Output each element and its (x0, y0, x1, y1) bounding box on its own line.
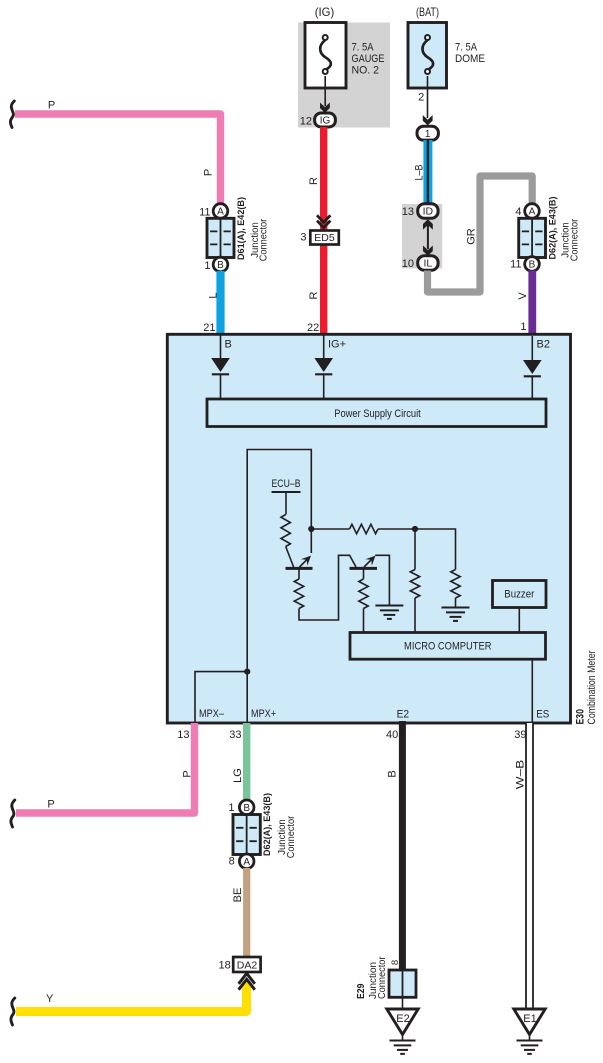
svg-text:E1: E1 (523, 1013, 536, 1025)
svg-text:12: 12 (300, 116, 312, 128)
svg-text:ED5: ED5 (314, 232, 335, 244)
wire Q2 emitter to ground (375, 555, 389, 605)
combination meter E30 box (167, 334, 570, 723)
wire break squiggle yellow (11, 998, 15, 1025)
svg-text:1: 1 (425, 129, 431, 140)
buzzer box (493, 581, 547, 608)
svg-text:11: 11 (199, 207, 210, 219)
pin label MPX- (199, 708, 225, 720)
svg-text:Connector: Connector (377, 956, 388, 999)
pin label B (225, 339, 232, 351)
svg-text:Connector: Connector (259, 218, 270, 261)
label R upper (308, 177, 320, 185)
label Combination Meter (586, 650, 598, 724)
svg-text:(IG): (IG) (315, 5, 335, 19)
svg-text:7. 5A: 7. 5A (455, 42, 478, 54)
svg-text:4: 4 (515, 206, 521, 218)
svg-text:21: 21 (203, 322, 215, 334)
diode 3 with leads (523, 336, 542, 400)
pin 40 bottom (386, 729, 398, 741)
gray service box around IG fuse (298, 23, 390, 128)
svg-text:13: 13 (402, 206, 414, 218)
wire ES internal (531, 659, 533, 721)
svg-text:R: R (308, 177, 320, 185)
svg-text:B: B (387, 770, 399, 777)
wire V (purple) (528, 271, 536, 334)
svg-text:18: 18 (219, 960, 231, 972)
power supply circuit box (207, 399, 546, 427)
svg-text:Buzzer: Buzzer (504, 589, 534, 601)
svg-text:MICRO COMPUTER: MICRO COMPUTER (404, 641, 492, 653)
svg-text:D61(A), E42(B): D61(A), E42(B) (235, 197, 246, 260)
wire MPX+ internal (247, 450, 311, 722)
diode 1 with leads (211, 334, 230, 400)
pin 22 (307, 322, 319, 334)
svg-text:ID: ID (423, 206, 434, 218)
svg-text:1: 1 (228, 802, 234, 814)
label B wire (387, 770, 399, 777)
wire GR (gray) (428, 176, 533, 292)
svg-text:22: 22 (307, 322, 319, 334)
pin label B2 (537, 339, 550, 351)
svg-text:1: 1 (204, 260, 210, 272)
label (BAT) (416, 5, 439, 19)
svg-text:D62(A), E43(B): D62(A), E43(B) (261, 793, 272, 856)
svg-text:IL: IL (424, 258, 433, 270)
svg-text:W–B: W–B (515, 760, 527, 790)
svg-text:L–B: L–B (414, 165, 426, 181)
svg-text:E29: E29 (356, 983, 367, 999)
pin 10 (402, 258, 414, 270)
pin label E2 (397, 709, 410, 721)
ground internal 1 (375, 606, 403, 619)
resistor R6 + ground lead (415, 529, 460, 608)
label GR (466, 228, 478, 245)
svg-text:A: A (243, 857, 250, 868)
shield chevron below DA2 (239, 973, 255, 989)
pin 12 (300, 116, 312, 128)
label V (517, 292, 529, 300)
svg-text:13: 13 (177, 729, 189, 741)
svg-text:8: 8 (229, 856, 235, 868)
pin 33 bottom (229, 729, 241, 741)
resistor R4 horizontal (311, 524, 415, 533)
svg-text:GR: GR (466, 228, 478, 245)
svg-text:2: 2 (418, 92, 424, 104)
svg-text:V: V (517, 292, 529, 300)
ground symbol E1 (517, 1035, 543, 1054)
junction dot node 1 (308, 526, 314, 532)
svg-text:GAUGE: GAUGE (352, 53, 385, 65)
svg-text:Connector: Connector (569, 218, 580, 261)
pin 1 (B2) (520, 321, 526, 333)
label L (208, 292, 220, 298)
svg-text:39: 39 (514, 729, 526, 741)
svg-text:E2: E2 (397, 709, 410, 721)
wire LG (green) (243, 723, 250, 801)
svg-text:E30: E30 (575, 709, 587, 725)
svg-text:IG: IG (320, 116, 331, 127)
wire buzzer to micro computer (518, 608, 520, 633)
fuse 7.5A DOME (408, 23, 485, 89)
label P horizontal bottom (47, 799, 54, 811)
ground internal 2 (442, 608, 470, 621)
svg-text:A: A (217, 207, 224, 218)
svg-text:MPX–: MPX– (199, 708, 225, 720)
svg-text:D62(A), E43(B): D62(A), E43(B) (547, 197, 558, 260)
svg-text:P: P (47, 799, 54, 811)
junction connector D62(A), E43(B) lower (228, 793, 297, 869)
ground triangle E1 (514, 1009, 545, 1035)
wire break squiggle pink bottom (11, 800, 15, 827)
junction dot MPX (244, 669, 250, 675)
svg-text:ES: ES (536, 709, 549, 721)
label LG (232, 768, 244, 783)
resistor R3 + wire to micro computer (359, 568, 368, 632)
svg-text:P: P (48, 100, 55, 112)
label P vertical (203, 169, 215, 176)
micro computer box (350, 633, 546, 660)
transistor Q1 (286, 547, 313, 569)
svg-text:Power Supply Circuit: Power Supply Circuit (334, 408, 421, 420)
svg-text:Connector: Connector (286, 815, 297, 858)
svg-text:L: L (208, 292, 220, 298)
gray service box around ID/IL (402, 204, 442, 269)
svg-text:P: P (182, 770, 194, 777)
label BE (232, 888, 244, 903)
pin 2 (418, 92, 424, 104)
fuse 7.5A GAUGE NO.2 (305, 23, 385, 89)
label L-B (414, 165, 426, 181)
svg-text:NO. 2: NO. 2 (352, 65, 380, 77)
svg-text:R: R (308, 291, 320, 299)
svg-text:11: 11 (510, 259, 521, 271)
label R lower (308, 291, 320, 299)
junction connector D61(A), E42(B) (199, 197, 270, 272)
wire B (black) (399, 721, 406, 970)
terminal 1 oval (417, 126, 438, 140)
terminal IG oval (315, 113, 336, 127)
label P horizontal (48, 100, 55, 112)
svg-text:B2: B2 (537, 339, 550, 351)
svg-text:8: 8 (390, 960, 401, 965)
wire L-B (blue/black stripe) (423, 140, 432, 204)
svg-text:P: P (203, 169, 215, 176)
svg-text:B: B (243, 803, 250, 814)
wire MPX- internal (195, 672, 247, 722)
terminal IL oval (418, 256, 438, 271)
svg-text:A: A (529, 207, 536, 218)
junction connector D62(A), E43(B) upper (510, 197, 580, 272)
svg-text:10: 10 (402, 258, 414, 270)
svg-text:40: 40 (386, 729, 398, 741)
svg-text:DA2: DA2 (237, 959, 258, 971)
wire from IG fuse to terminal 12 (320, 76, 330, 113)
pin label MPX+ (251, 708, 276, 720)
wire E29 to E2 ground (402, 997, 404, 1009)
label Y (46, 993, 54, 1005)
wire break squiggle (10, 101, 14, 128)
svg-text:7. 5A: 7. 5A (352, 42, 375, 54)
svg-text:B: B (217, 260, 224, 271)
pin 18 (219, 960, 231, 972)
svg-text:DOME: DOME (455, 53, 485, 65)
svg-text:MPX+: MPX+ (251, 708, 276, 720)
terminal ECU-B (272, 478, 301, 515)
junction connector E29 (389, 970, 416, 997)
svg-text:3: 3 (300, 232, 306, 244)
label E30 (575, 709, 587, 725)
svg-text:Y: Y (46, 993, 54, 1005)
wire W-B (white/black stripe) (525, 723, 534, 1009)
svg-text:ECU–B: ECU–B (272, 478, 301, 490)
wire P (pink) bottom (16, 723, 195, 813)
pin label ES (536, 709, 549, 721)
pin label IG+ (328, 339, 346, 351)
pin 3 (300, 232, 306, 244)
svg-text:B: B (529, 260, 536, 271)
svg-text:E2: E2 (396, 1013, 409, 1025)
label P vertical bottom (182, 770, 194, 777)
transistor Q2 (350, 556, 378, 569)
diode 2 with leads (314, 334, 333, 400)
svg-text:(BAT): (BAT) (416, 5, 439, 19)
resistor R5 + wire to micro computer (410, 529, 419, 633)
connector ED5 (310, 231, 339, 245)
svg-text:BE: BE (232, 888, 244, 903)
ground symbol E2 (390, 1035, 416, 1054)
pin 13 (402, 206, 414, 218)
terminal ID oval (418, 204, 438, 219)
resistor R1 (281, 515, 290, 547)
double arrow ID-IL (423, 219, 433, 256)
pin 8 E29 (390, 960, 401, 965)
label E29 Junction Connector (368, 956, 388, 999)
wire Y (yellow) (16, 982, 247, 1012)
svg-text:IG+: IG+ (328, 339, 346, 351)
svg-text:LG: LG (232, 768, 244, 783)
wire from BAT fuse to terminal 1 (423, 76, 433, 125)
wire R (red) (320, 127, 327, 333)
pin 21 (203, 322, 215, 334)
label (IG) (315, 5, 335, 19)
svg-text:1: 1 (520, 321, 526, 333)
shield chevron into ED5 (317, 215, 330, 227)
svg-text:Combination Meter: Combination Meter (586, 650, 598, 724)
resistor R2 + wire to Q2 collector (294, 555, 356, 620)
ground triangle E2 (387, 1009, 418, 1035)
svg-text:B: B (225, 339, 232, 351)
wire L (blue) (216, 271, 224, 333)
svg-text:33: 33 (229, 729, 241, 741)
label W-B (515, 760, 527, 790)
wire P (pink) top (15, 114, 221, 205)
pin 39 bottom (514, 729, 526, 741)
wire BE (tan) (243, 868, 250, 957)
connector DA2 (233, 957, 260, 972)
junction dot node 2 (412, 526, 418, 532)
pin 13 bottom (177, 729, 189, 741)
label E29 (356, 983, 367, 999)
